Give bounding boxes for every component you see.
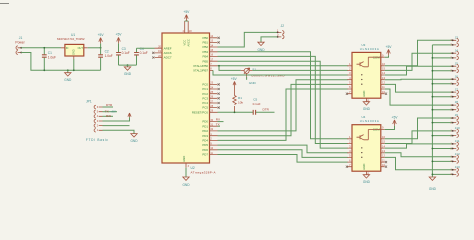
connector J7 <box>451 87 459 98</box>
ground GND under U4 <box>363 175 371 184</box>
wire U3 O3 to J5 <box>385 66 453 75</box>
driver U3 ULN2003A <box>346 43 387 103</box>
svg-text:PC0: PC0 <box>202 83 208 87</box>
svg-text:GND: GND <box>130 139 138 143</box>
svg-text:C4: C4 <box>140 47 144 51</box>
svg-text:PB2: PB2 <box>203 45 209 49</box>
wire U4 O4 to J12 <box>385 153 453 157</box>
svg-text:RESET/PC6: RESET/PC6 <box>192 110 208 114</box>
svg-text:10k: 10k <box>238 101 243 105</box>
connector J10 <box>451 126 460 137</box>
U2 left pins AREF ADC6 ADC7 <box>152 45 172 60</box>
svg-text:C3: C3 <box>122 47 126 51</box>
wire U3 O4 to J6 <box>385 78 453 81</box>
svg-text:GND: GND <box>182 183 190 187</box>
svg-text:XTAL2/PB7: XTAL2/PB7 <box>193 69 208 73</box>
svg-text:+5V: +5V <box>183 10 190 14</box>
connector J9 <box>451 113 459 124</box>
connector J5 <box>451 61 459 72</box>
svg-text:PB0: PB0 <box>203 36 209 40</box>
U2 bottom pin GND <box>182 156 190 177</box>
wire PB4 to U4 input I2 <box>218 56 348 143</box>
connector J12 <box>451 152 460 163</box>
svg-text:C5: C5 <box>253 97 257 101</box>
svg-text:AREF: AREF <box>164 46 172 50</box>
wire PD1 TX <box>218 125 221 127</box>
svg-text:ULN2003A: ULN2003A <box>360 47 379 51</box>
wire U3 O2 to J4 <box>385 53 453 70</box>
ground GND at rail bottom <box>429 177 435 180</box>
resistor R1 10k <box>233 87 244 112</box>
wire JP1 pin3 to +5V <box>103 117 130 121</box>
connector J2 <box>277 24 284 39</box>
wire PD3 to U3 input I5 <box>218 84 348 135</box>
svg-text:GND: GND <box>363 107 371 111</box>
svg-text:1.0uF: 1.0uF <box>48 56 56 60</box>
svg-text:GND: GND <box>182 156 186 162</box>
connector J4 <box>451 49 459 60</box>
svg-text:+5V: +5V <box>386 45 393 49</box>
svg-text:RXI: RXI <box>106 114 111 118</box>
svg-text:GND: GND <box>124 72 132 76</box>
svg-text:JP1: JP1 <box>86 100 92 104</box>
svg-text:PD7: PD7 <box>202 153 208 157</box>
svg-text:PD2: PD2 <box>202 129 208 133</box>
ground GND under regulator rail <box>64 69 72 82</box>
wire JP1 pin4 RXI <box>103 115 114 117</box>
svg-text:PB1: PB1 <box>203 41 209 45</box>
svg-text:TX: TX <box>216 122 220 126</box>
wire U3 COM to +5V <box>385 55 389 57</box>
svg-text:+5V: +5V <box>392 115 399 119</box>
svg-text:ATmega328P-A: ATmega328P-A <box>191 171 216 175</box>
wire J1.2 to ground rail <box>21 53 100 71</box>
svg-text:XTAL1/PB6: XTAL1/PB6 <box>193 64 208 68</box>
capacitor C2 <box>98 48 113 71</box>
svg-text:PD0: PD0 <box>202 120 208 124</box>
wire PD0 RX <box>218 121 224 123</box>
svg-text:Power: Power <box>15 40 25 44</box>
wire PD7 to U4 input I6 <box>218 155 348 163</box>
svg-text:GND: GND <box>362 91 366 97</box>
svg-text:ADC6: ADC6 <box>164 51 172 55</box>
svg-text:PC1: PC1 <box>202 87 208 91</box>
wire U3 O1 to J3 <box>385 40 453 66</box>
svg-text:PC3: PC3 <box>202 96 208 100</box>
svg-text:ULN2003A: ULN2003A <box>360 119 379 123</box>
supply +5V above R1 <box>231 77 238 87</box>
wire U3 O6 to J8 <box>385 89 453 105</box>
svg-text:PB4: PB4 <box>203 55 209 59</box>
svg-text:R1: R1 <box>238 96 242 100</box>
svg-text:PB5: PB5 <box>203 59 209 63</box>
svg-text:C1: C1 <box>48 51 52 55</box>
wire J2 pin 2 to ground <box>261 37 277 42</box>
wire button to U3 input I2 <box>252 69 347 71</box>
svg-text:FTDI Basic: FTDI Basic <box>86 138 108 142</box>
wire XTAL2/PB7 to U3 input I3 <box>213 70 348 75</box>
wire C5 to DTR <box>256 111 275 113</box>
wire U1 GND to rail <box>73 59 75 70</box>
net label GND at button <box>247 73 257 85</box>
svg-text:PC5: PC5 <box>202 106 208 110</box>
svg-text:1.0uF: 1.0uF <box>105 54 113 58</box>
svg-text:PD3: PD3 <box>202 134 208 138</box>
ground GND under C3/C4 <box>124 65 132 76</box>
wire PD5 to U4 input I4 <box>218 145 348 153</box>
connector J6 <box>451 74 459 85</box>
supply +5V at regulator output <box>98 33 105 48</box>
svg-text:+5V: +5V <box>231 77 238 81</box>
wire JP1 pin5 TX <box>103 111 118 113</box>
wire J1.1 to U1 input <box>21 47 61 49</box>
capacitor C1 <box>42 47 56 71</box>
svg-text:GND: GND <box>363 180 371 184</box>
wire RESET/PC6 to C5 <box>218 111 253 113</box>
wire U4 COM to +5V <box>385 126 395 130</box>
svg-text:PD6: PD6 <box>202 148 208 152</box>
svg-text:+5V: +5V <box>98 33 105 37</box>
wire JP1 pin2 <box>103 125 130 127</box>
svg-text:+5V: +5V <box>116 33 123 37</box>
wire U4 O5 to J13 <box>385 157 453 169</box>
ground GND under U2 <box>182 177 190 187</box>
capacitor C4 <box>134 47 148 65</box>
connector J13 <box>451 165 460 176</box>
supply +5V at JP1 <box>110 110 131 118</box>
X marks unconnected U2 pins <box>218 37 220 109</box>
svg-text:0.1uF: 0.1uF <box>122 51 130 55</box>
svg-text:0.1uF: 0.1uF <box>140 51 148 55</box>
capacitor C3 <box>116 47 130 65</box>
svg-text:GND: GND <box>362 164 366 170</box>
svg-text:PC2: PC2 <box>202 92 208 96</box>
svg-text:PD5: PD5 <box>202 143 208 147</box>
svg-text:DTR: DTR <box>263 107 270 111</box>
svg-text:GND: GND <box>73 49 76 55</box>
svg-text:OUT: OUT <box>78 47 84 50</box>
svg-text:J2: J2 <box>281 24 285 28</box>
svg-text:C2: C2 <box>105 49 109 53</box>
connector J3 <box>451 36 459 47</box>
wire C4 to AREF pin <box>137 47 155 49</box>
frame artifact top-left <box>0 3 9 5</box>
wire U3 O5 to J7 <box>385 84 453 92</box>
wire JP1 pin1 to ground <box>103 130 135 133</box>
U2 top pins VCC AVCC to +5V <box>183 10 193 47</box>
wire PB5 to U4 input I3 <box>218 61 348 148</box>
voltage regulator U1 MCP1117 <box>57 33 88 59</box>
svg-text:PC4: PC4 <box>202 101 208 105</box>
U2 right pin stubs and numbers <box>192 35 220 157</box>
svg-text:PD4: PD4 <box>202 139 208 143</box>
svg-text:ADC7: ADC7 <box>164 56 172 60</box>
connector J1 Power <box>15 36 25 54</box>
svg-text:PB3: PB3 <box>203 50 209 54</box>
wire XTAL1/PB6 to U3 input I1 and button branch <box>218 66 348 71</box>
wire JP1 pin6 DTR <box>103 106 114 108</box>
wire PD2 to U3 input I4 <box>218 80 348 131</box>
wire PD6 to U4 input I5 <box>218 150 348 158</box>
svg-text:DTR: DTR <box>106 103 113 107</box>
supply +5V above C3 <box>116 33 123 53</box>
ground GND under U3 <box>363 102 371 111</box>
svg-text:PD1: PD1 <box>202 124 208 128</box>
connector J8 <box>451 100 459 111</box>
svg-text:GND: GND <box>249 81 257 85</box>
driver U4 ULN2003A <box>346 115 387 175</box>
supply +5V at U3 COM <box>386 45 393 55</box>
wire C3/C4 ground rail <box>119 64 137 66</box>
wire U4 O2 to J10 <box>385 131 453 144</box>
wire U1 output to +5V / C2 <box>88 47 101 49</box>
supply +5V at U4 COM <box>392 115 399 125</box>
microcontroller U2 ATmega328P-A <box>162 33 216 175</box>
svg-text:+5V: +5V <box>110 110 117 114</box>
svg-text:AVCC: AVCC <box>187 39 191 46</box>
svg-text:VCC: VCC <box>183 40 187 46</box>
pushbutton S1 <box>241 67 286 77</box>
svg-text:U2: U2 <box>191 166 195 170</box>
svg-text:IN: IN <box>66 47 69 50</box>
ground GND under J2 <box>257 42 265 52</box>
wire PD4 to U3 input I6 <box>218 89 348 140</box>
svg-text:RX: RX <box>216 118 220 122</box>
svg-text:MCP1117-5.0_TO252: MCP1117-5.0_TO252 <box>57 37 85 41</box>
wire U4 O1 to J9 <box>385 118 453 139</box>
svg-text:0.1uF: 0.1uF <box>253 102 261 106</box>
svg-text:GND: GND <box>64 78 72 82</box>
connector J11 <box>451 139 460 150</box>
ground rail for output connectors <box>431 45 433 177</box>
connector JP1 FTDI Basic <box>86 100 108 143</box>
svg-text:GND: GND <box>429 187 437 191</box>
ground GND at JP1 <box>130 134 138 144</box>
capacitor C5 <box>253 97 261 114</box>
wire PB2 to J2 pin 1 <box>218 32 278 47</box>
wire U4 O3 to J11 <box>385 144 453 148</box>
wire PB3 to U4 input I1 <box>218 52 348 139</box>
